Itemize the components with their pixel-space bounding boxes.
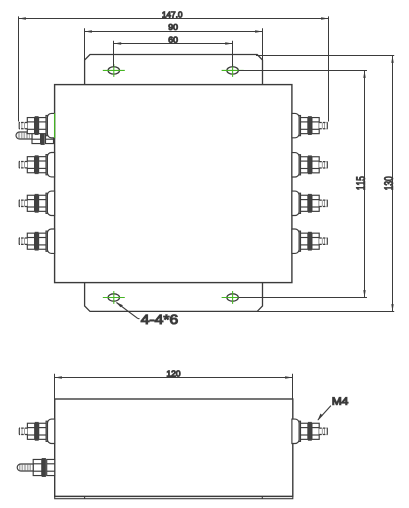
extension line hole top right xyxy=(238,70,367,72)
leader 4-4*6 xyxy=(116,302,178,324)
terminal L2 left xyxy=(19,153,55,177)
extension line flange bottom right xyxy=(256,311,394,313)
terminal R2 right xyxy=(292,153,328,177)
mounting hole H4 xyxy=(222,291,244,304)
dimension 60 xyxy=(114,37,233,67)
ground terminal E (top view, behind L1) xyxy=(16,126,54,144)
body outline (side view) xyxy=(55,399,293,496)
terminal side left A xyxy=(19,419,55,443)
mounting hole H3 xyxy=(103,291,125,304)
dimension 120 xyxy=(55,371,293,399)
mounting hole H2 xyxy=(222,64,244,77)
terminal L1 left xyxy=(19,113,55,137)
dimension 130 xyxy=(384,56,393,312)
terminal side right C xyxy=(292,419,328,443)
dimension 115 xyxy=(356,71,365,298)
dimension 147.0 xyxy=(19,12,329,122)
base plate edge-on xyxy=(55,496,293,498)
extension line flange top right xyxy=(256,55,394,57)
extension line hole bottom right xyxy=(238,297,367,299)
body outline (top view) xyxy=(55,85,292,283)
green edge highlight xyxy=(54,113,56,138)
leader M4 xyxy=(318,397,348,420)
dimension 90 xyxy=(85,24,263,60)
terminal R1 right xyxy=(292,113,328,137)
terminal R3 right xyxy=(292,191,328,215)
terminal L4 left xyxy=(19,229,55,253)
flange bottom tab xyxy=(85,283,263,312)
terminal L3 left xyxy=(19,191,55,215)
terminal R4 right xyxy=(292,229,328,253)
mounting hole H1 xyxy=(103,64,125,77)
flange top tab xyxy=(85,55,263,85)
ground terminal side left B xyxy=(17,458,55,476)
